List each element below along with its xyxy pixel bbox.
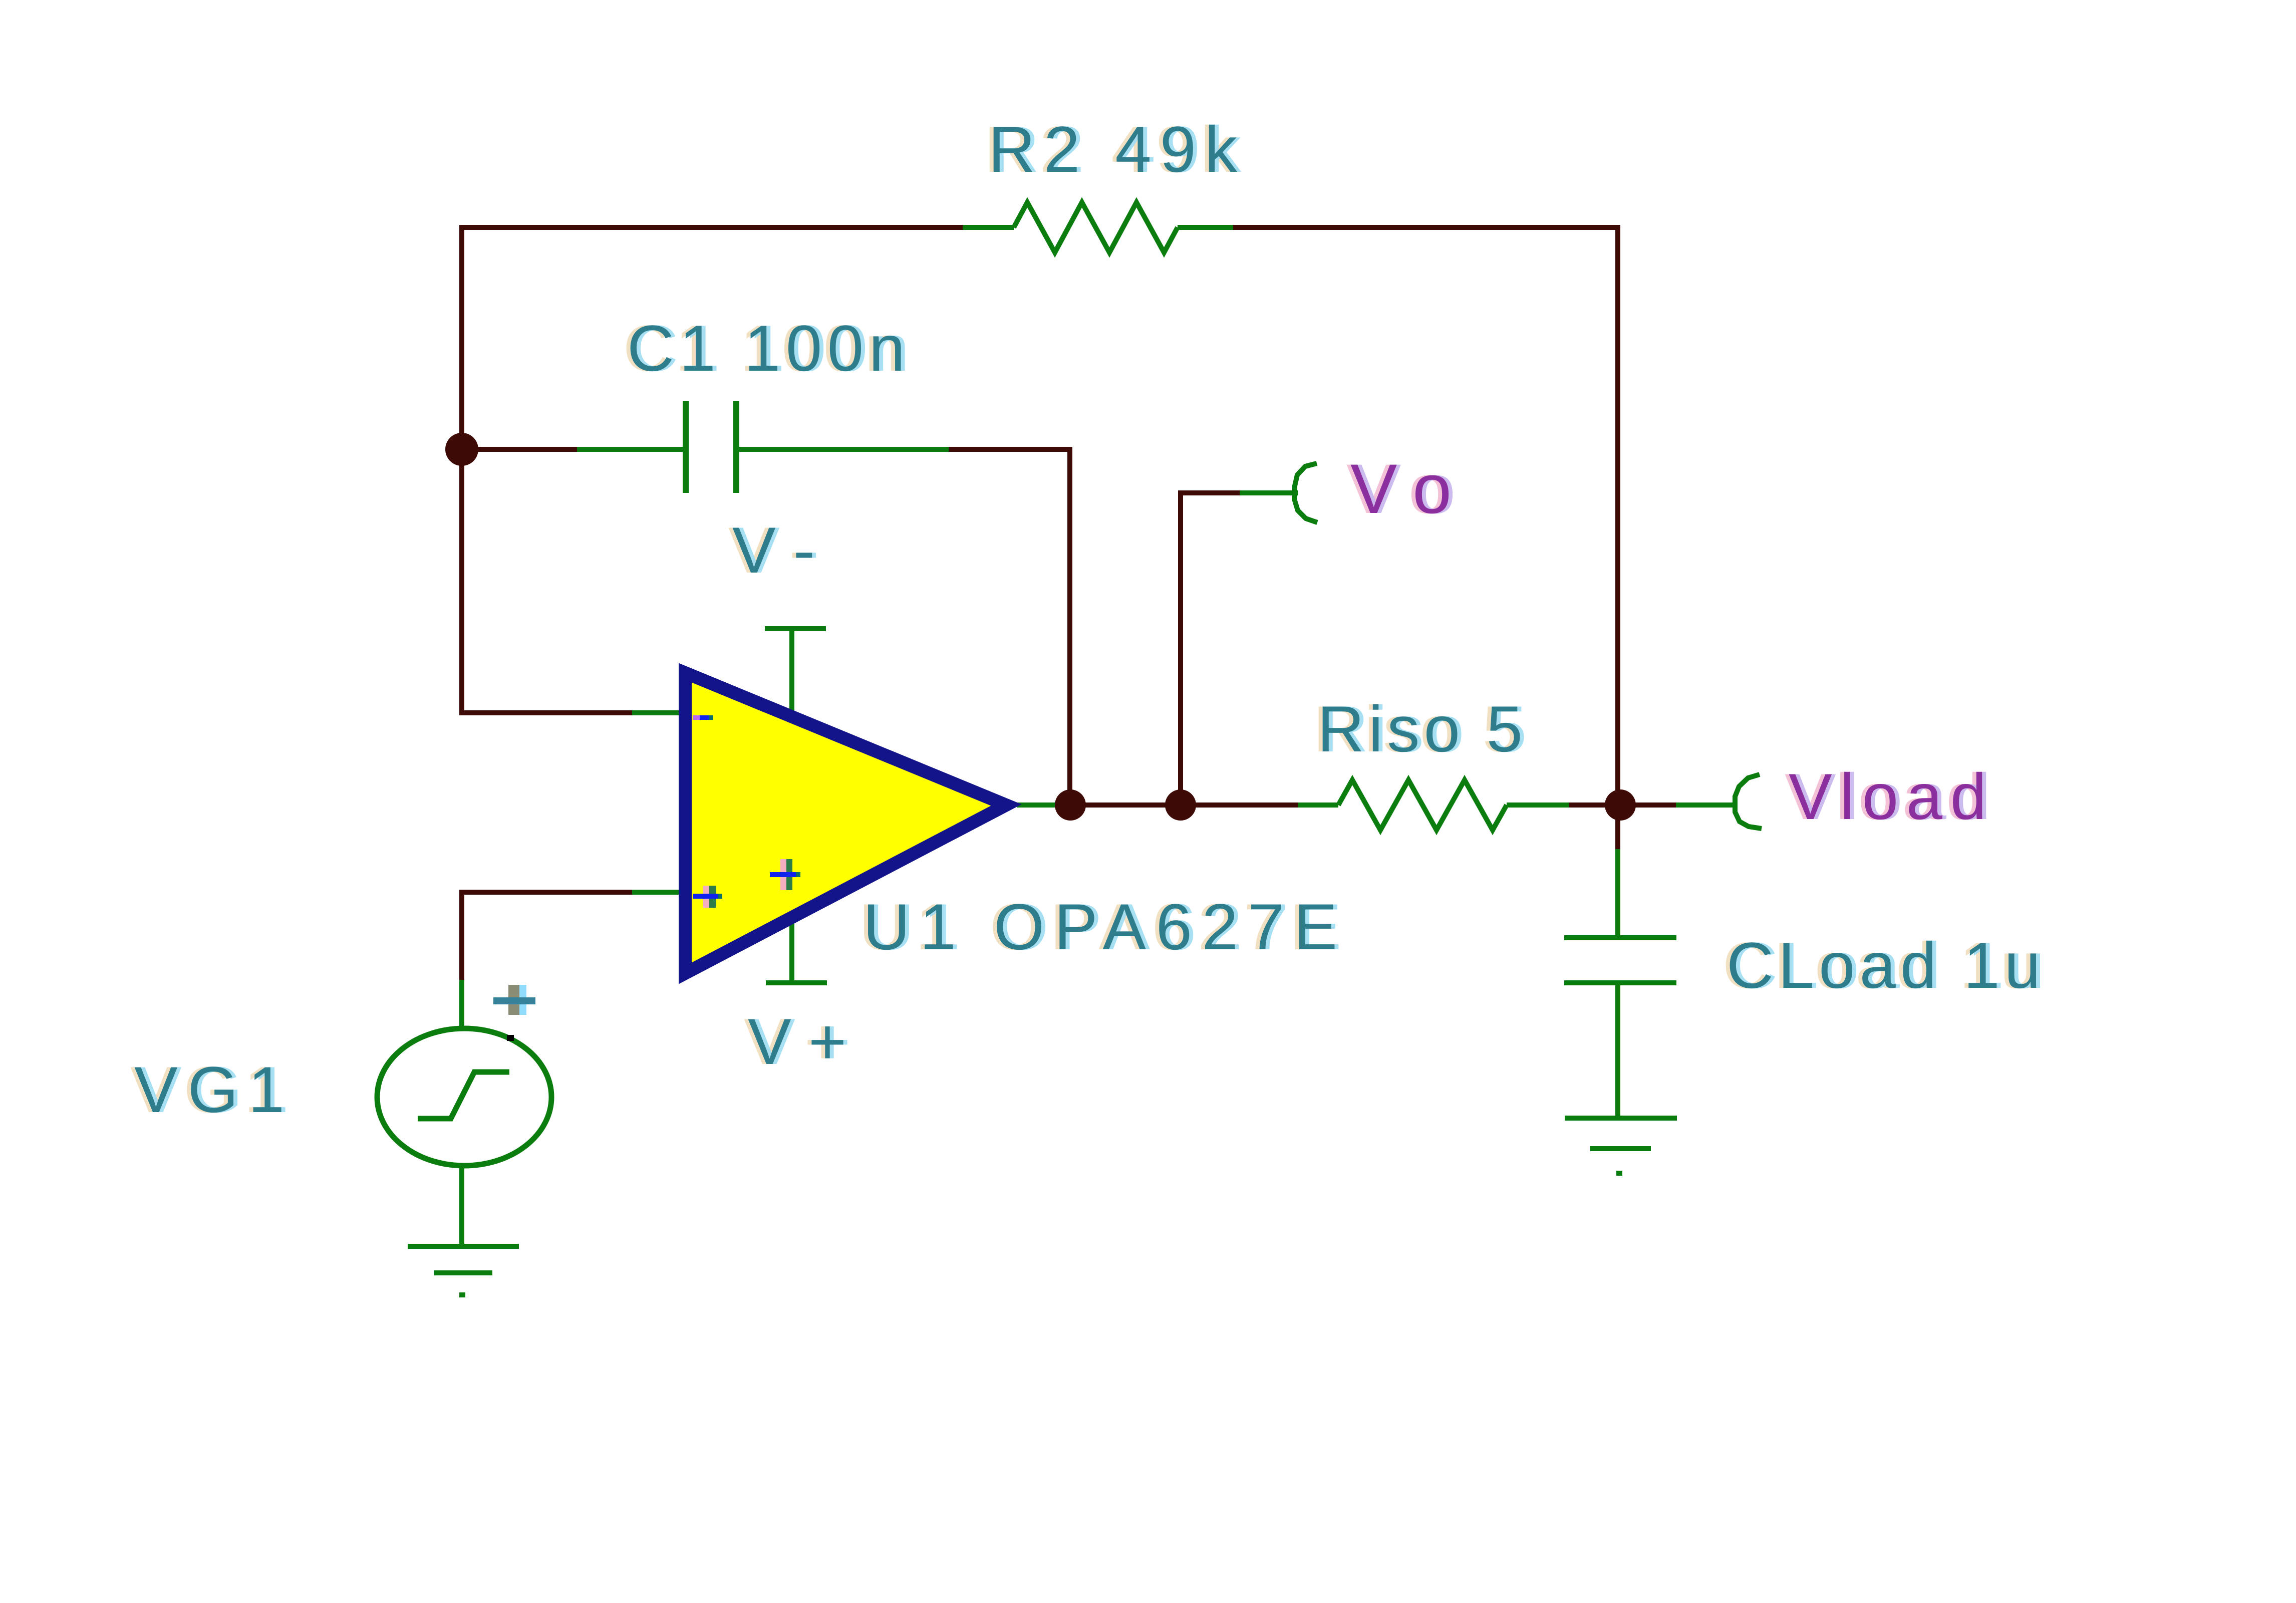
svg-text:V -: V -	[732, 513, 815, 587]
svg-text:C1 100n: C1 100n	[627, 312, 905, 385]
svg-text:VG1: VG1	[134, 1053, 284, 1126]
svg-text:Vload: Vload	[1789, 760, 1986, 833]
svg-text:V +: V +	[748, 1005, 846, 1078]
